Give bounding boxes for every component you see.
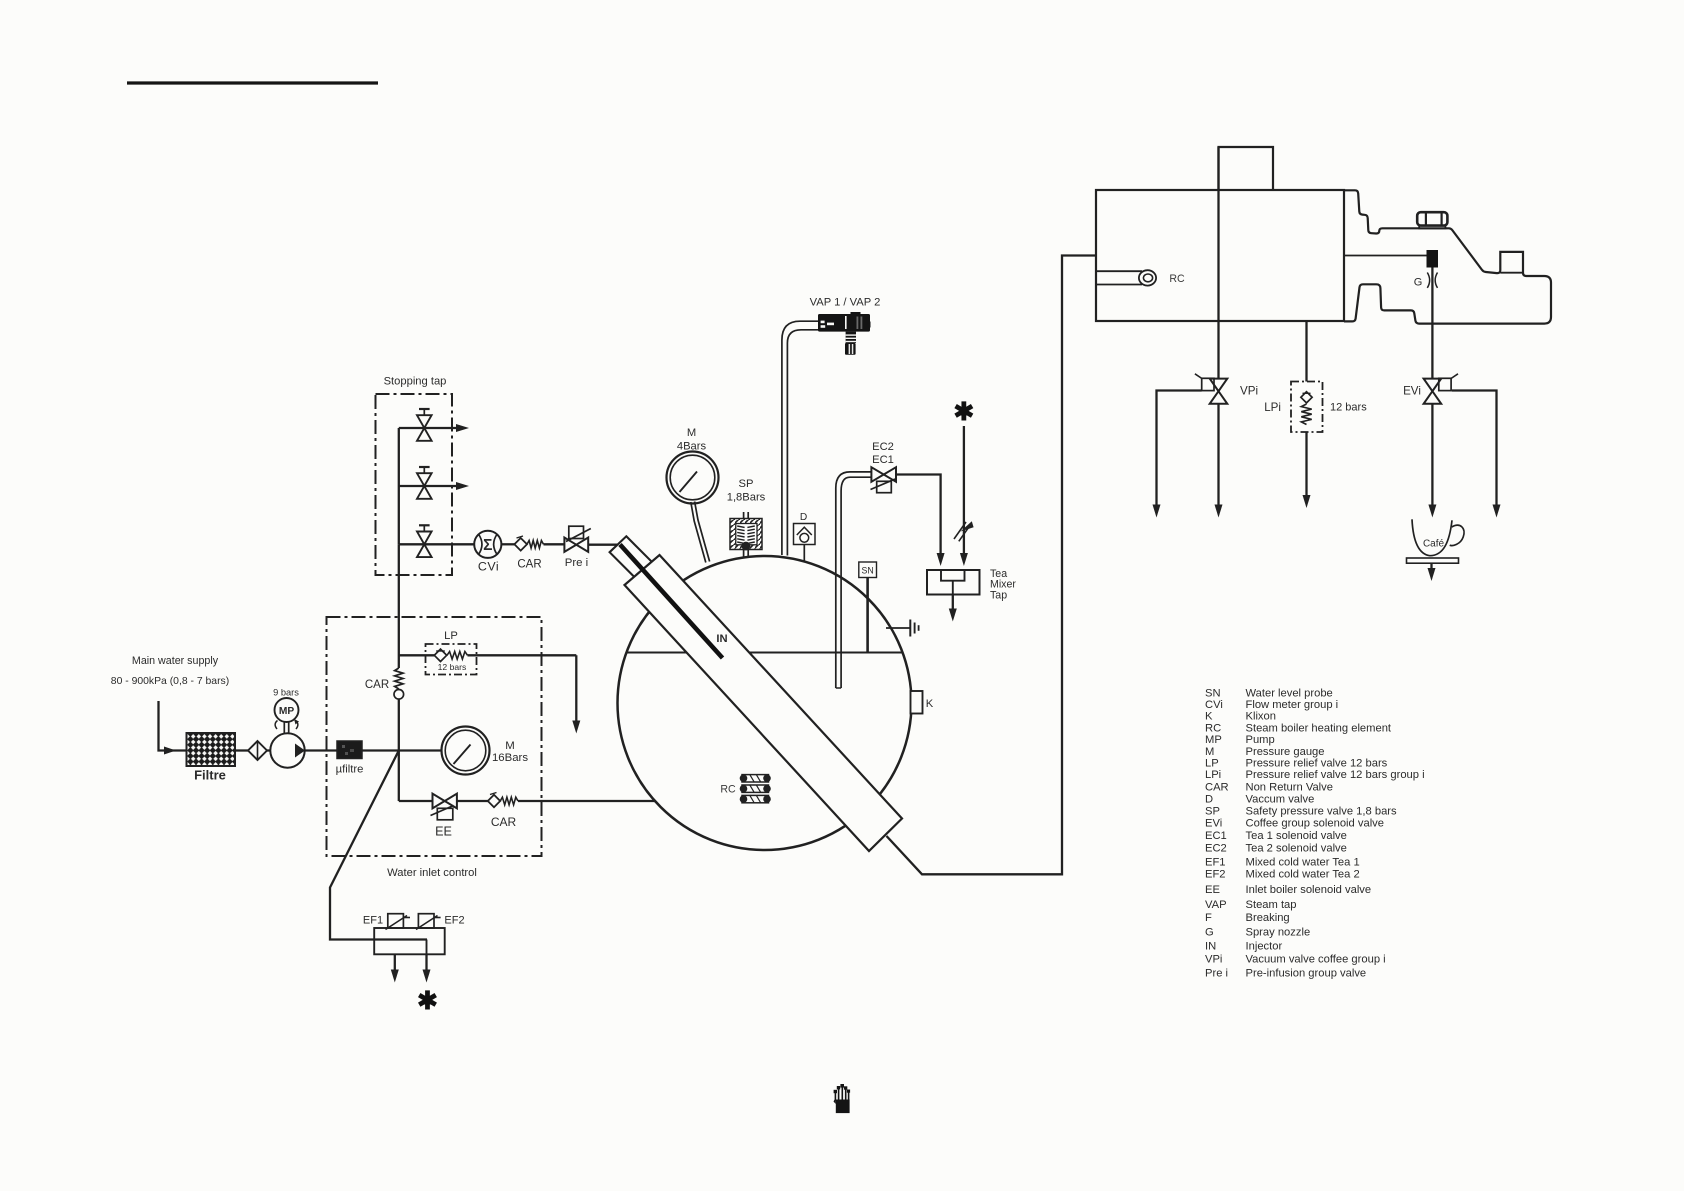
svg-text:SP: SP — [739, 478, 754, 490]
svg-text:EC2: EC2 — [1205, 842, 1227, 854]
heating element RC (group) — [1096, 270, 1185, 285]
steam tap VAP 1 / VAP 2 — [810, 297, 881, 355]
svg-text:Pre-infusion group valve: Pre-infusion group valve — [1246, 967, 1367, 979]
svg-text:RC: RC — [720, 784, 736, 796]
svg-text:EE: EE — [1205, 884, 1220, 896]
svg-text:EF1: EF1 — [363, 915, 383, 927]
non-return valve CAR (riser) — [365, 668, 404, 699]
svg-text:LPi: LPi — [1264, 401, 1281, 414]
enclosure: Stopping tap (dash-dot box) — [376, 376, 453, 576]
svg-text:M: M — [1205, 746, 1214, 758]
wire: stopping tap internal riser — [398, 428, 400, 544]
vacuum valve D — [794, 512, 816, 562]
svg-text:Pump: Pump — [1246, 734, 1275, 746]
svg-text:SP: SP — [1205, 806, 1220, 818]
svg-text:MP: MP — [279, 706, 294, 717]
wire — [235, 749, 248, 751]
svg-text:Pressure gauge: Pressure gauge — [1246, 746, 1325, 758]
manual valve: stopping tap 2 with outlet arrow — [399, 467, 469, 499]
manual valve: stopping tap 1 with outlet arrow — [399, 409, 469, 441]
svg-text:EC1: EC1 — [1205, 830, 1227, 842]
solenoid EF2 — [416, 914, 465, 930]
wire: EC outlet elbow to tea mixer with arrow — [896, 475, 945, 567]
svg-text:Water inlet control: Water inlet control — [387, 867, 477, 879]
wire: riser from junction to stopping tap / CAR / LP tee — [398, 544, 400, 750]
relief valve LP 12 bars — [426, 630, 477, 675]
portafilter lug — [1500, 272, 1523, 274]
svg-text:SN: SN — [1205, 687, 1221, 699]
svg-text:µfiltre: µfiltre — [336, 764, 364, 776]
svg-text:✱: ✱ — [953, 398, 974, 426]
svg-text:12 bars: 12 bars — [1330, 402, 1367, 414]
svg-text:Pressure relief valve 12 bars: Pressure relief valve 12 bars — [1246, 758, 1388, 770]
wire: EVi right waste branch with arrow — [1452, 391, 1501, 518]
title underline — [127, 81, 378, 84]
wire: junction drop to EE branch — [398, 751, 400, 802]
wire: diagonal from junction down to EF manifold — [330, 751, 427, 940]
svg-text:Vaccum valve: Vaccum valve — [1246, 794, 1315, 806]
svg-text:Flow meter group i: Flow meter group i — [1246, 699, 1339, 711]
svg-text:IN: IN — [1205, 940, 1216, 952]
wire — [544, 543, 565, 545]
svg-text:M: M — [687, 427, 696, 439]
flow meter CVi — [474, 531, 501, 574]
svg-text:Coffee group solenoid valve: Coffee group solenoid valve — [1246, 818, 1385, 830]
svg-text:CVi: CVi — [478, 560, 499, 574]
wire: VPi left branch with arrow — [1153, 391, 1202, 518]
svg-text:EE: EE — [435, 825, 452, 839]
vacuum valve VPi — [1195, 374, 1258, 404]
pressure gauge M 4Bars — [667, 427, 719, 504]
svg-text:EC1: EC1 — [872, 454, 894, 466]
svg-text:Stopping tap: Stopping tap — [384, 376, 447, 388]
manual valve: stopping tap 3 feeding CVi — [399, 525, 474, 557]
svg-text:EF2: EF2 — [444, 915, 464, 927]
manifold box EF1/EF2 — [374, 928, 445, 954]
relief valve LPi 12 bars — [1264, 382, 1367, 433]
svg-text:G: G — [1205, 926, 1214, 938]
svg-text:Tea 1 solenoid valve: Tea 1 solenoid valve — [1246, 830, 1347, 842]
svg-text:D: D — [800, 512, 807, 523]
svg-text:Breaking: Breaking — [1246, 912, 1290, 924]
svg-text:CAR: CAR — [1205, 781, 1229, 793]
coffee group chimney — [1219, 147, 1274, 190]
svg-text:Pressure relief valve 12 bars: Pressure relief valve 12 bars group i — [1246, 769, 1425, 781]
safety valve SP 1,8Bars — [727, 478, 766, 557]
svg-text:Pre i: Pre i — [565, 557, 588, 569]
svg-text:Spray nozzle: Spray nozzle — [1246, 926, 1311, 938]
wire: mixed cold water line (asterisk) with arrow — [953, 398, 974, 566]
svg-text:Tap: Tap — [990, 590, 1007, 602]
pre-infusion valve Pre i — [564, 526, 590, 569]
svg-text:Pre i: Pre i — [1205, 967, 1228, 979]
svg-text:EF2: EF2 — [1205, 869, 1226, 881]
wire — [501, 543, 514, 545]
svg-text:IN: IN — [716, 633, 727, 645]
svg-text:MP: MP — [1205, 734, 1222, 746]
svg-text:SN: SN — [861, 566, 873, 576]
svg-text:LP: LP — [1205, 758, 1219, 770]
coffee cup Café — [1407, 519, 1465, 581]
svg-text:Klixon: Klixon — [1246, 711, 1276, 723]
micro-filter µfiltre — [336, 741, 364, 776]
svg-text:CAR: CAR — [517, 559, 541, 571]
hand icon (bottom center) — [834, 1084, 851, 1113]
svg-text:Non Return Valve: Non Return Valve — [1246, 781, 1333, 793]
svg-text:Café: Café — [1423, 539, 1445, 550]
svg-text:CAR: CAR — [491, 815, 517, 829]
wire: inlet supply down-elbow into filter — [159, 701, 187, 755]
pump MP — [270, 733, 305, 767]
node: boiler water level line — [627, 652, 904, 654]
wire: main line to junction and gauge M16 — [362, 749, 442, 751]
svg-text:Tea 2 solenoid valve: Tea 2 solenoid valve — [1246, 842, 1347, 854]
svg-text:EVi: EVi — [1205, 818, 1222, 830]
steam boiler vessel — [618, 556, 912, 850]
ground (earth) symbol — [886, 620, 919, 637]
non-return valve CAR (boiler feed) — [488, 793, 518, 830]
svg-text:M: M — [505, 740, 515, 752]
wire: nozzle drop to EVi — [1431, 268, 1433, 379]
legend table — [1205, 687, 1425, 979]
wire: VPi outlet arrow — [1215, 404, 1223, 518]
wire: tea water pickup tube (to EC valves) — [836, 472, 872, 688]
svg-text:EVi: EVi — [1403, 385, 1421, 398]
spray nozzle G — [1414, 250, 1438, 289]
injector IN main tube — [625, 555, 903, 851]
wire: injector outlet to coffee group riser — [887, 256, 1097, 875]
solenoid valve EE — [431, 794, 457, 839]
svg-text:Vacuum valve coffee group i: Vacuum valve coffee group i — [1246, 953, 1386, 965]
svg-text:9 bars: 9 bars — [273, 688, 299, 698]
solenoid valve EVi — [1403, 374, 1458, 404]
svg-text:VPi: VPi — [1240, 385, 1258, 398]
pressure gauge M 16Bars — [442, 727, 529, 775]
filter Filtre — [187, 733, 236, 783]
svg-text:RC: RC — [1205, 722, 1221, 734]
svg-text:12 bars: 12 bars — [438, 662, 467, 672]
svg-text:K: K — [1205, 711, 1213, 723]
wire — [305, 749, 338, 751]
node: Main water supply label — [111, 655, 229, 687]
klixon K — [911, 691, 934, 714]
svg-text:Injector: Injector — [1246, 940, 1283, 952]
svg-text:80 - 900kPa (0,8 - 7 bars): 80 - 900kPa (0,8 - 7 bars) — [111, 676, 229, 687]
svg-text:Steam tap: Steam tap — [1246, 899, 1297, 911]
svg-text:Σ: Σ — [483, 537, 492, 554]
enclosure: Water inlet control (dash-dot box) — [327, 617, 542, 879]
svg-text:EC2: EC2 — [872, 441, 894, 453]
svg-text:Safety pressure valve 1,8 bars: Safety pressure valve 1,8 bars — [1246, 806, 1398, 818]
hex bolt on group — [1417, 212, 1447, 228]
svg-text:VAP: VAP — [1205, 899, 1227, 911]
svg-text:Filtre: Filtre — [194, 768, 226, 783]
wire: steam pipe to VAP taps — [782, 321, 819, 555]
svg-text:LP: LP — [444, 630, 458, 642]
wire — [588, 544, 617, 546]
injector needle — [620, 545, 723, 659]
coffee group boiler body — [1096, 190, 1344, 321]
svg-text:Mixed cold water Tea 2: Mixed cold water Tea 2 — [1246, 869, 1360, 881]
svg-text:✱: ✱ — [417, 987, 438, 1015]
svg-text:K: K — [926, 698, 934, 710]
non-return valve CAR (group line) — [514, 536, 543, 571]
wire: LPi branch — [1303, 320, 1311, 508]
svg-text:16Bars: 16Bars — [492, 752, 528, 764]
water level probe SN — [859, 562, 877, 653]
motor MP with 9 bars rating — [273, 688, 299, 734]
wire: gauge M4 siphon tube — [691, 502, 710, 563]
wire: group central riser — [1217, 147, 1219, 379]
svg-text:EF1: EF1 — [1205, 857, 1226, 869]
heating element RC (boiler) — [720, 775, 770, 803]
solenoid EF1 — [363, 914, 410, 930]
svg-text:Inlet boiler solenoid valve: Inlet boiler solenoid valve — [1246, 884, 1372, 896]
Tea Mixer Tap — [927, 568, 1016, 622]
svg-text:Main water supply: Main water supply — [132, 655, 219, 667]
svg-text:VPi: VPi — [1205, 953, 1222, 965]
svg-text:F: F — [1205, 912, 1212, 924]
wire: EE branch — [399, 800, 655, 802]
svg-text:Water level probe: Water level probe — [1246, 687, 1333, 699]
svg-text:LPi: LPi — [1205, 769, 1221, 781]
svg-text:Steam boiler heating element: Steam boiler heating element — [1246, 722, 1392, 734]
injector nozzle tube (upper section) — [610, 536, 669, 594]
wire: EVi outlet to cup — [1428, 404, 1436, 518]
wire: LP line with down arrow — [399, 655, 581, 733]
svg-text:Mixed cold water Tea 1: Mixed cold water Tea 1 — [1246, 857, 1360, 869]
svg-text:RC: RC — [1169, 273, 1185, 285]
svg-text:1,8Bars: 1,8Bars — [727, 492, 766, 504]
svg-text:CVi: CVi — [1205, 699, 1223, 711]
svg-text:D: D — [1205, 794, 1213, 806]
svg-text:VAP 1 / VAP 2: VAP 1 / VAP 2 — [810, 297, 881, 309]
flow restrictor (breaking F) — [954, 521, 974, 541]
svg-text:G: G — [1414, 277, 1423, 289]
coffee group head outline — [1344, 190, 1551, 323]
solenoid valves EC1 EC2 — [871, 441, 897, 493]
check valve (diamond) — [248, 741, 267, 760]
svg-text:CAR: CAR — [365, 679, 389, 691]
wire: boiler to spray nozzle G — [1344, 255, 1427, 257]
wire — [267, 749, 271, 751]
wire: EF outlet arrows — [391, 954, 431, 982]
